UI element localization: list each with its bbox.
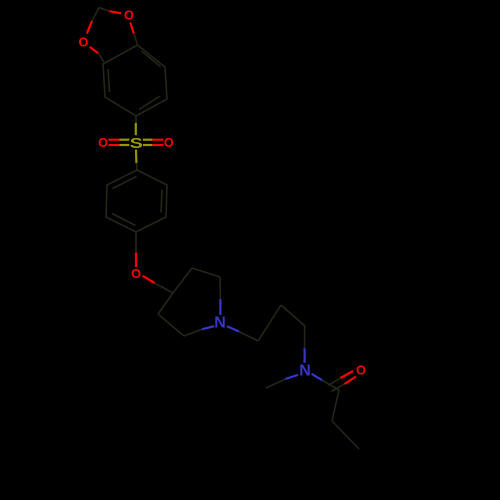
S=O right double bond olive halves — [143, 139, 153, 141]
ring2 benzene (faint) — [106, 170, 167, 232]
bond S-C1' faint lower part — [136, 163, 139, 170]
dioxole ring faint carbon halves — [92, 8, 138, 63]
S=O right double bond red halves — [152, 139, 163, 141]
bond CH2-O2 red part — [87, 21, 92, 34]
bond O-C4p faint part — [155, 283, 173, 293]
bond C4'-O ether faint part — [135, 232, 137, 253]
bond O2-C3a red half — [90, 47, 98, 53]
svg-text:O: O — [98, 136, 108, 150]
bond N2-Cco blue half — [312, 374, 322, 380]
svg-text:N: N — [299, 362, 311, 379]
bond S-C1' olive half — [135, 150, 138, 163]
bond N1-C2 blue half — [219, 299, 221, 315]
acyl chain faint — [332, 390, 339, 421]
svg-text:O: O — [79, 36, 89, 50]
atom S label — [130, 134, 143, 151]
bond O1-C7a red half — [130, 22, 134, 33]
svg-text:O: O — [164, 136, 174, 150]
C=O double bond red halves — [341, 371, 354, 378]
piperidine ring faint bonds — [158, 268, 220, 336]
svg-text:O: O — [356, 364, 366, 378]
ring1 benzene of benzodioxole (faint carbon skeleton) — [103, 45, 167, 116]
S=O left double bond red halves — [109, 139, 120, 141]
svg-text:N: N — [214, 315, 226, 332]
svg-text:O: O — [131, 267, 141, 281]
N2 methyl faint — [266, 379, 285, 388]
bond C5-S faint upper part — [135, 116, 137, 123]
bond N2-CH3 blue half — [285, 375, 298, 379]
S=O left double bond olive halves — [120, 139, 130, 141]
C=O carbon-side faint halves — [328, 378, 341, 386]
svg-text:S: S — [130, 134, 143, 151]
svg-text:O: O — [124, 8, 134, 22]
N2-Cco faint — [322, 380, 339, 390]
bond CH2-O1 red part — [109, 11, 121, 13]
bond N1-C6p blue half — [202, 326, 214, 329]
bond C5-S olive half — [135, 123, 137, 135]
bond N1-Ca blue half — [227, 326, 239, 331]
chain N1-CH2-CH2-CH2-N2 faint bonds — [239, 305, 305, 348]
bond Oether-C4p red half — [143, 276, 155, 283]
bond C4'-Oether red half — [135, 253, 137, 267]
bond N2-Cc blue half — [304, 348, 306, 363]
